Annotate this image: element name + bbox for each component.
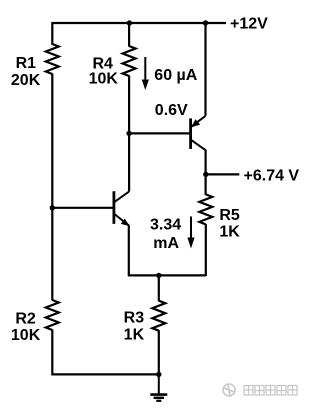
wire R3 top lead bbox=[158, 275, 160, 301]
node dot R3 top bbox=[156, 273, 161, 278]
watermark text blocks bbox=[244, 386, 297, 396]
node dot ground bbox=[156, 372, 161, 377]
resistor R4 bbox=[123, 46, 136, 76]
wire left rail lower (R2 to bottom) bbox=[51, 330, 53, 376]
wire Q2 emitter vertical from top rail bbox=[204, 22, 206, 116]
resistor R3 bbox=[152, 301, 165, 331]
wire left rail upper (top to R1) bbox=[51, 22, 53, 45]
Q2 emitter arrowhead bbox=[191, 119, 200, 127]
ground bbox=[150, 374, 167, 400]
svg-text:20K: 20K bbox=[11, 72, 41, 89]
wire R4 bottom to Q1 collector bbox=[128, 76, 130, 192]
svg-text:1K: 1K bbox=[124, 326, 145, 343]
transistor Q1 (NPN) bbox=[114, 191, 129, 226]
svg-text:1K: 1K bbox=[219, 223, 240, 240]
wire bottom rail bbox=[52, 373, 159, 375]
svg-text:+6.74 V: +6.74 V bbox=[244, 168, 300, 185]
wire top rail +12V bbox=[52, 22, 226, 24]
svg-text:R2: R2 bbox=[15, 310, 36, 327]
node dot top R4 tap bbox=[127, 20, 132, 25]
node dot top Q2 emitter tap bbox=[203, 20, 208, 25]
wire +6.74V stub bbox=[206, 173, 240, 175]
wire left rail middle (R1 to R2) bbox=[51, 74, 53, 301]
arrow 60 uA current bbox=[142, 57, 149, 90]
svg-text:R5: R5 bbox=[219, 207, 240, 224]
wire Q1 emitter vertical bbox=[128, 225, 130, 276]
svg-text:R3: R3 bbox=[124, 309, 145, 326]
node dot +6.74V bbox=[203, 172, 208, 177]
svg-text:10K: 10K bbox=[89, 71, 119, 88]
svg-text:0.6V: 0.6V bbox=[155, 102, 188, 119]
svg-text:10K: 10K bbox=[11, 327, 41, 344]
wire Q2 base wire bbox=[129, 132, 191, 134]
node dot left rail Q1 base bbox=[50, 205, 55, 210]
svg-text:mA: mA bbox=[153, 235, 179, 252]
resistor R5 bbox=[199, 194, 212, 224]
svg-text:60 µA: 60 µA bbox=[154, 67, 197, 84]
wire Q1 base wire bbox=[52, 207, 114, 209]
svg-text:3.34: 3.34 bbox=[150, 217, 181, 234]
wire R3 bottom lead bbox=[158, 330, 160, 374]
Q1 emitter arrowhead bbox=[121, 219, 130, 227]
svg-text:+12V: +12V bbox=[230, 16, 268, 33]
arrow 3.34 mA current bbox=[187, 217, 194, 249]
svg-text:R1: R1 bbox=[16, 55, 37, 72]
wire R5 bottom lead bbox=[205, 224, 207, 276]
resistor R2 bbox=[46, 300, 59, 330]
watermark logo swirl bbox=[223, 384, 235, 396]
node dot Q2 base tap bbox=[126, 131, 131, 136]
transistor Q2 (PNP) bbox=[191, 116, 206, 150]
wire middle bottom rail bbox=[129, 274, 206, 276]
wire R4 branch top lead bbox=[128, 22, 130, 47]
resistor R1 bbox=[46, 44, 59, 74]
wire Q2 collector vertical to R5 bbox=[205, 150, 207, 195]
